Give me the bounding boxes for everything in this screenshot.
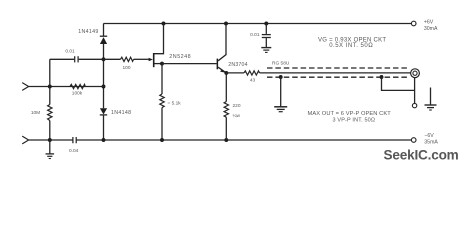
svg-text:0.01: 0.01: [65, 48, 75, 54]
resistor R5 220: [224, 73, 228, 140]
svg-text:MAX OUT = 6 VP-P OPEN CKT: MAX OUT = 6 VP-P OPEN CKT: [308, 111, 392, 117]
wire gate line vertical mid: [103, 44, 105, 108]
output terminal lower: [412, 103, 416, 107]
node gate/cap: [102, 57, 106, 61]
wire Q1 source: [155, 63, 163, 65]
node bottom 220 junction: [224, 138, 228, 142]
node bottom input junction: [48, 138, 52, 142]
wire gate line vertical upper: [103, 24, 105, 37]
svg-text:100: 100: [122, 65, 130, 71]
coax shield bottom dashed: [267, 76, 409, 78]
wire source to base: [162, 63, 217, 65]
wire shield to lower jack terminal: [382, 77, 415, 90]
-6V terminal: [411, 138, 416, 143]
wire Q2 emitter: [218, 67, 226, 72]
wire gate line vertical lower: [103, 115, 105, 140]
wire Q2 collector: [218, 24, 226, 61]
wire emitter to 43: [226, 72, 244, 74]
wire cap to gate node: [79, 58, 121, 60]
svg-text:2N5248: 2N5248: [169, 54, 191, 60]
svg-text:SeekIC.com: SeekIC.com: [384, 148, 459, 163]
ground GND2 coax shield: [274, 77, 287, 112]
wire Q1 drain: [155, 24, 164, 54]
svg-text:10M: 10M: [31, 110, 40, 116]
svg-text:¼w: ¼w: [233, 113, 241, 119]
resistor R6 43: [244, 71, 260, 75]
diode D2 1N4148: [100, 108, 107, 115]
transistor Q1 2N5248 JFET channel bar: [153, 53, 155, 67]
svg-text:0.04: 0.04: [69, 148, 79, 154]
svg-text:3 VP-P INT. 50Ω: 3 VP-P INT. 50Ω: [333, 117, 376, 123]
transistor Q2 2N3704 bar: [217, 59, 219, 70]
wire cap feed line: [50, 58, 74, 60]
wire left vertical: [49, 59, 51, 140]
svg-text:1N4148: 1N4148: [111, 110, 131, 116]
svg-text:220: 220: [233, 103, 241, 109]
ground GND3 chassis: [425, 88, 437, 111]
svg-text:2N3704: 2N3704: [228, 62, 247, 68]
node emitter: [224, 71, 228, 75]
svg-text:= 5.1k: = 5.1k: [168, 101, 182, 107]
bottom rail wire: [29, 139, 412, 141]
node bottom diode junction: [102, 138, 106, 142]
wire input 1 line: [29, 86, 104, 88]
svg-text:35mA: 35mA: [424, 140, 438, 146]
node input1 junction: [48, 85, 52, 89]
resistor R1 10M: [48, 105, 52, 121]
ground GND1: [46, 140, 55, 159]
resistor R3 100: [121, 57, 134, 61]
node: collector to rail: [224, 22, 228, 26]
node: drain to rail: [162, 22, 166, 26]
Q2 emitter arrow: [220, 69, 226, 73]
svg-text:43: 43: [250, 77, 256, 83]
input terminal J2: [22, 136, 28, 144]
wire gate to JFET: [134, 58, 149, 60]
node: bypass cap to rail: [264, 22, 268, 26]
+6V terminal: [411, 21, 416, 26]
input terminal J1: [22, 83, 28, 91]
node shield ground tap: [279, 75, 283, 79]
svg-text:+6V: +6V: [424, 19, 434, 25]
svg-text:30mA: 30mA: [424, 26, 438, 32]
coax shield top dashed: [267, 67, 409, 69]
ground GND4 bypass: [261, 48, 271, 53]
capacitor C1 0.01: [75, 56, 78, 62]
capacitor C3 0.04: [73, 137, 76, 143]
svg-text:−6V: −6V: [424, 133, 434, 139]
diode D1 1N4149: [100, 36, 107, 44]
JFET gate arrow: [149, 58, 153, 62]
wire coax center conductor: [260, 72, 411, 74]
svg-text:100k: 100k: [72, 91, 83, 97]
node bottom 5.1k junction: [160, 138, 164, 142]
capacitor C2 0.01 bypass: [262, 24, 271, 48]
top +V rail: [104, 23, 412, 25]
svg-text:RG 58U: RG 58U: [272, 60, 290, 66]
resistor R4 5.1k: [160, 64, 164, 140]
wire connector shell down: [414, 78, 416, 104]
coax connector J3: [411, 69, 420, 78]
svg-text:0.01: 0.01: [250, 32, 260, 38]
svg-text:1N4149: 1N4149: [78, 29, 98, 35]
resistor R2 100k: [70, 84, 85, 88]
node source: [160, 62, 164, 66]
node shield to output jack: [380, 75, 384, 79]
node gate/100k: [102, 85, 106, 89]
svg-text:0.5X INT. 50Ω: 0.5X INT. 50Ω: [329, 43, 373, 49]
